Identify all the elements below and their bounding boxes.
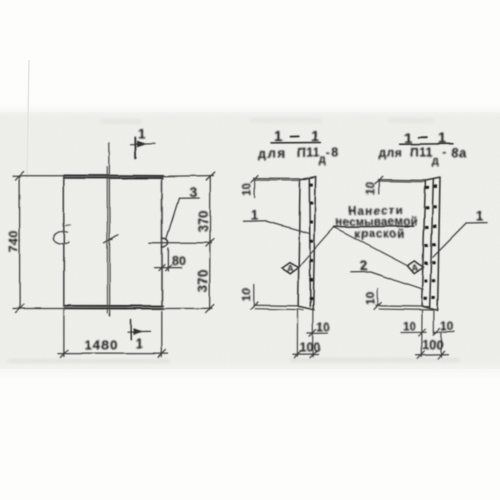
- s1 lower extension lines: [297, 311, 313, 357]
- svg-text:П11: П11: [297, 146, 321, 160]
- svg-text:740: 740: [6, 230, 21, 253]
- panel bottom edge (thick): [64, 306, 163, 309]
- svg-text:10: 10: [364, 291, 378, 305]
- s2 dim 10 bottom right: [433, 328, 455, 335]
- s1 top dim line doubled: [251, 176, 300, 198]
- s1 bottom dim line doubled: [251, 285, 303, 310]
- svg-text:2: 2: [360, 258, 368, 274]
- dimension 740: [13, 172, 64, 313]
- s2 leader 2: [350, 272, 423, 290]
- scan smudge top c: [388, 118, 434, 123]
- paper noise: [0, 112, 500, 369]
- section mark 1 top: [131, 138, 155, 159]
- svg-text:10: 10: [363, 182, 377, 196]
- s2 paint mark diamond A: [407, 261, 423, 274]
- axis centre tick: [104, 235, 118, 243]
- title 2 "1 - 1": [400, 131, 453, 147]
- svg-text:10: 10: [441, 319, 455, 333]
- s2 rebar dots left column: [424, 186, 430, 300]
- svg-text:Нанести: Нанести: [349, 205, 404, 217]
- s2 dim 10 bottom left: [401, 329, 426, 336]
- svg-text:100: 100: [300, 341, 321, 355]
- svg-text:д: д: [432, 155, 439, 167]
- svg-text:370: 370: [196, 210, 211, 233]
- note underline: [334, 225, 413, 228]
- scan gray band: [0, 0, 1, 1]
- svg-text:1: 1: [476, 208, 484, 224]
- svg-text:П11: П11: [410, 146, 434, 160]
- s2 bottom dim line doubled: [374, 288, 434, 310]
- svg-text:-: -: [326, 145, 330, 159]
- svg-text:10: 10: [240, 183, 254, 197]
- s1 dim 10 bottom right: [307, 330, 327, 337]
- svg-text:-: -: [443, 145, 447, 159]
- s1 dim 100: [293, 351, 318, 358]
- paper crease left: [27, 60, 29, 178]
- svg-text:80: 80: [172, 254, 186, 268]
- s1 rebar dots: [309, 183, 313, 300]
- panel left edge: [63, 176, 65, 306]
- svg-text:1: 1: [136, 336, 144, 351]
- title 1 "1 - 1": [272, 129, 321, 145]
- svg-text:10: 10: [403, 320, 417, 334]
- axis line (double): [107, 143, 110, 316]
- s2 dim 100: [416, 351, 449, 358]
- lifting loop left: [53, 225, 70, 243]
- svg-text:краской: краской: [354, 228, 405, 240]
- s2 leader from note text: [334, 227, 407, 265]
- leader 3: [166, 198, 199, 239]
- panel top edge (thick): [64, 175, 164, 178]
- svg-text:1480: 1480: [85, 338, 119, 353]
- svg-text:1: 1: [138, 127, 146, 142]
- section mark 1 bottom: [128, 320, 151, 340]
- svg-text:8: 8: [332, 146, 339, 160]
- s1 paint mark diamond A: [281, 263, 298, 274]
- title 1 sub "dlya P11d-8": [259, 145, 339, 166]
- s1 panel outline: [298, 177, 316, 310]
- scan smudge bottom left: [8, 359, 170, 363]
- svg-text:10: 10: [317, 320, 331, 334]
- s2 leader 1: [433, 223, 488, 257]
- loop notch right (item 3): [162, 238, 168, 247]
- title 2 sub "dlya P11d-8a": [379, 145, 468, 167]
- s2 top dim line doubled: [375, 176, 425, 194]
- svg-text:10: 10: [239, 288, 253, 302]
- scan smudge top b: [250, 118, 322, 123]
- dimension 1480: [58, 310, 168, 358]
- s2 lower extension lines: [422, 311, 441, 357]
- s1 leader 1: [243, 221, 308, 233]
- svg-text:д: д: [319, 154, 326, 166]
- s2 panel outline: [422, 178, 440, 311]
- svg-text:8а: 8а: [452, 146, 467, 160]
- dimension 80: [155, 249, 182, 272]
- scan smudge top a: [100, 119, 142, 124]
- svg-text:3: 3: [190, 184, 198, 200]
- svg-text:A: A: [412, 263, 419, 273]
- s2 rebar dots right column: [431, 185, 437, 299]
- svg-text:370: 370: [195, 270, 210, 293]
- scan smudge bottom right: [290, 358, 460, 362]
- svg-text:для: для: [379, 146, 403, 160]
- dimension 370/370 right: [149, 172, 215, 313]
- panel right edge: [161, 177, 163, 307]
- svg-text:100: 100: [422, 338, 443, 352]
- svg-text:для: для: [259, 146, 287, 160]
- s1 leader from note text: [298, 227, 334, 268]
- svg-text:A: A: [287, 264, 294, 274]
- svg-text:1: 1: [251, 207, 259, 223]
- note text "Nanesti nesmyvaemoy kraskoy": [335, 205, 417, 240]
